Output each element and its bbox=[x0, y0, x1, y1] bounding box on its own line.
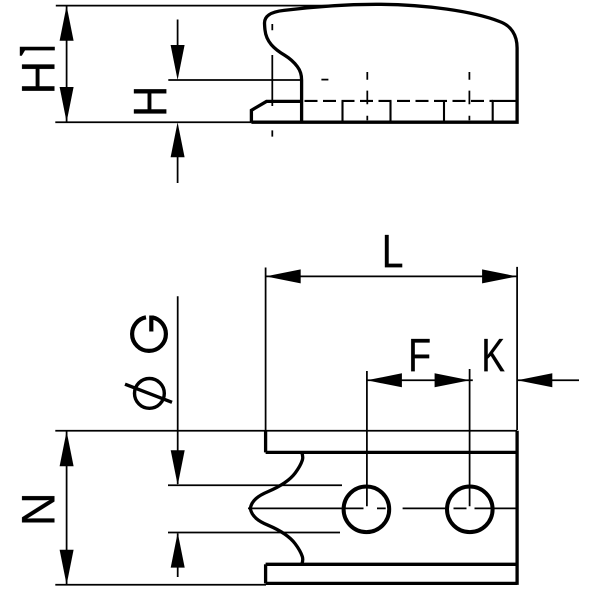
L left extension line bbox=[265, 268, 267, 431]
bottom flange top edge bbox=[266, 563, 517, 566]
hole top extension line bbox=[168, 484, 342, 486]
serration tick 2 bbox=[389, 101, 391, 121]
H1 bottom extension line bbox=[55, 121, 251, 123]
hidden serration root line bbox=[305, 100, 494, 102]
F label bbox=[411, 339, 429, 371]
N label bbox=[22, 496, 54, 522]
N dimension line bbox=[66, 431, 68, 585]
F arrow left bbox=[367, 373, 402, 387]
H1 label H bbox=[22, 64, 54, 90]
right edge bbox=[515, 431, 518, 585]
serration tick 3 bbox=[443, 101, 445, 121]
N bottom extension line bbox=[55, 584, 266, 586]
foot with chamfer bbox=[251, 101, 301, 122]
K arrow bbox=[517, 373, 552, 387]
G leader line upper bbox=[177, 296, 179, 484]
H1 top extension line bbox=[56, 5, 345, 7]
hole1 vertical centerline bbox=[366, 371, 368, 506]
hole 2 bbox=[447, 487, 493, 533]
serration tick 4 and corner box bbox=[493, 101, 516, 121]
wavy left edge bbox=[250, 452, 303, 564]
K label bbox=[484, 339, 504, 371]
diameter symbol circle bbox=[135, 379, 165, 409]
L right extension line bbox=[516, 267, 518, 430]
profile outline bbox=[251, 4, 517, 122]
bottom flange left edge bbox=[264, 564, 267, 583]
H arrow lower bbox=[171, 122, 185, 157]
H label bbox=[134, 89, 166, 113]
top flange left edge bbox=[264, 431, 267, 453]
G label (letter G drawn as arc + bar) bbox=[132, 317, 166, 351]
H upper arrow tail bbox=[177, 20, 179, 48]
H1 label digit 1 bbox=[20, 47, 55, 56]
centerline mid bbox=[366, 72, 368, 120]
N arrow bottom bbox=[60, 550, 74, 585]
H1 arrow bottom bbox=[60, 87, 74, 122]
F dimension line bbox=[367, 379, 473, 381]
G arrow lower bbox=[171, 533, 185, 568]
H lower arrow tail bbox=[177, 155, 179, 183]
G arrow upper bbox=[171, 450, 185, 485]
top edge thin line bbox=[55, 430, 517, 432]
hole2 vertical centerline bbox=[469, 369, 471, 506]
horizontal centerline bbox=[248, 507, 517, 509]
F arrow right bbox=[435, 373, 470, 387]
hole bottom extension line bbox=[168, 532, 340, 534]
bottom flange bottom edge bbox=[266, 582, 517, 585]
centerline right bbox=[468, 72, 470, 120]
H1 dimension line bbox=[66, 6, 68, 122]
G leader line lower bbox=[177, 534, 179, 578]
centerline left bbox=[271, 24, 273, 137]
serration tick 1 bbox=[341, 101, 343, 121]
hole 1 bbox=[344, 487, 390, 533]
L arrow left bbox=[266, 269, 301, 283]
top flange bottom edge bbox=[266, 451, 517, 454]
diameter symbol slash bbox=[125, 384, 172, 402]
small dash bbox=[321, 79, 328, 81]
H extension line bbox=[168, 79, 300, 81]
L dimension line bbox=[266, 275, 517, 277]
G label crossbar bbox=[149, 316, 153, 332]
H1 arrow top bbox=[60, 6, 74, 41]
H arrow upper bbox=[171, 45, 185, 80]
N arrow top bbox=[60, 431, 74, 466]
K arrow tail bbox=[517, 379, 579, 381]
L arrow right bbox=[482, 269, 517, 283]
L label bbox=[385, 235, 402, 267]
